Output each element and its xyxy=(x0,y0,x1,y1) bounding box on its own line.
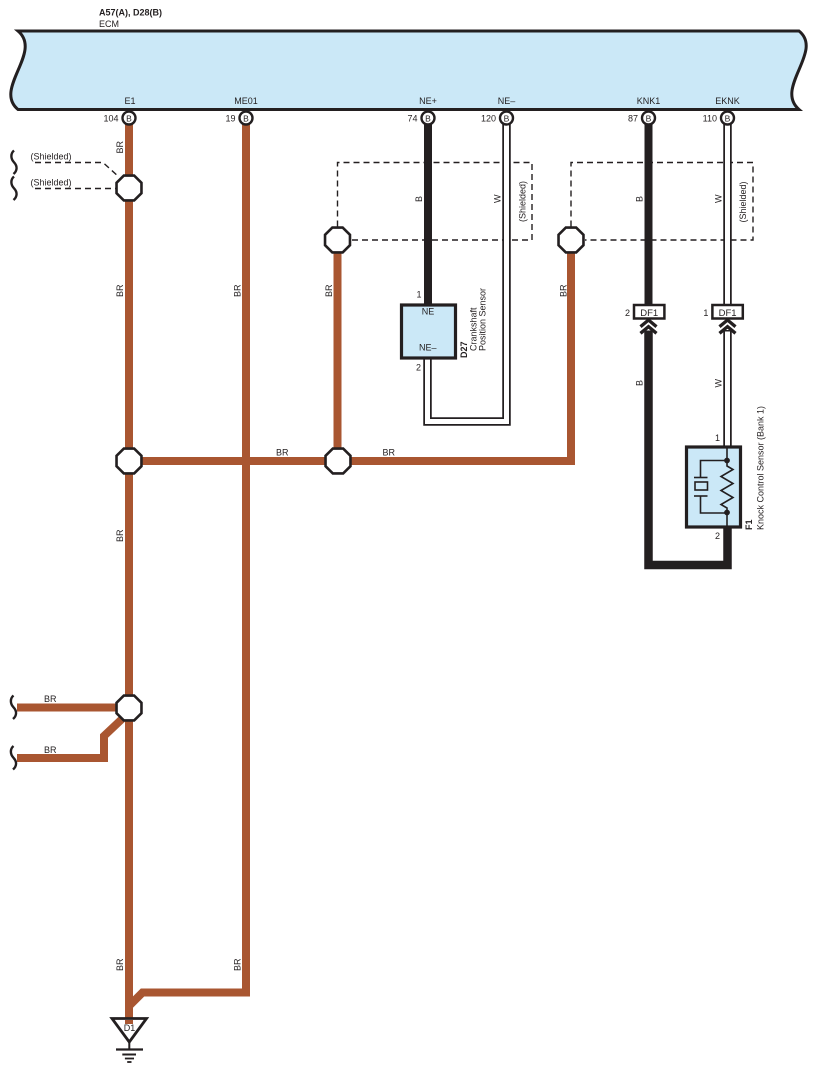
pin 19 circle B (ME01) xyxy=(225,112,252,125)
svg-text:BR: BR xyxy=(115,284,125,297)
svg-text:D27: D27 xyxy=(459,341,469,358)
break squiggle stub A xyxy=(11,696,16,720)
svg-text:DF1: DF1 xyxy=(719,308,737,319)
brace squiggle lower left xyxy=(11,177,16,201)
splice octagon on bus at NE branch xyxy=(326,449,351,474)
ground symbol D1 triangle xyxy=(112,1019,147,1043)
svg-text:EKNK: EKNK xyxy=(715,96,740,106)
pin 104 circle B (E1) xyxy=(103,112,135,125)
wire B from ECM pin KNK1 down to shield connector DF1 xyxy=(645,121,653,307)
F1 internal resistor xyxy=(721,461,733,513)
wire B from ECM pin NE+ down to D27 sensor xyxy=(424,121,432,308)
wire W from below DF1 chevrons down to knock sensor F1 pin 1 (hollow white wire) xyxy=(723,330,732,450)
svg-text:1: 1 xyxy=(416,290,421,300)
F1 internal top junction dot xyxy=(724,458,730,464)
svg-text:BR: BR xyxy=(383,448,396,458)
svg-text:ME01: ME01 xyxy=(234,96,258,106)
svg-text:1: 1 xyxy=(703,308,708,318)
svg-text:E1: E1 xyxy=(124,96,135,106)
svg-text:2: 2 xyxy=(625,308,630,318)
svg-text:B: B xyxy=(725,113,731,123)
svg-text:D1: D1 xyxy=(124,1023,136,1033)
ground bar 2 xyxy=(122,1054,136,1056)
knock control sensor F1 box xyxy=(687,447,741,527)
F1 internal lead to pin 2 xyxy=(726,513,728,528)
svg-text:BR: BR xyxy=(233,958,243,971)
shield annotation dashed leader (Shielded) lower xyxy=(35,188,116,190)
svg-text:74: 74 xyxy=(407,114,417,124)
wire BR branch from NE shield octagon down to bus splice xyxy=(334,243,342,461)
shield chevrons below DF1 (EKNK) xyxy=(720,320,736,333)
svg-text:BR: BR xyxy=(233,284,243,297)
svg-text:KNK1: KNK1 xyxy=(637,96,661,106)
shield annotation dashed leader (Shielded) upper xyxy=(35,163,119,178)
splice octagon on E1 wire with stubs xyxy=(117,696,142,721)
wire BR bus from KNK shield octagon down and left to E1 splice xyxy=(129,243,571,461)
svg-text:W: W xyxy=(714,194,724,203)
splice octagon on E1 wire (shield tie) xyxy=(117,176,142,201)
svg-text:BR: BR xyxy=(115,958,125,971)
shield connector DF1 (EKNK side) xyxy=(712,305,742,319)
pin 87 circle B (KNK1) xyxy=(628,112,655,125)
svg-text:(Shielded): (Shielded) xyxy=(31,178,72,188)
svg-text:A57(A), D28(B): A57(A), D28(B) xyxy=(99,8,162,18)
pin 120 circle B (NE-) xyxy=(481,112,513,125)
svg-text:F1: F1 xyxy=(744,519,754,530)
wire B from below DF1 chevrons down, right, up to knock sensor F1 pin 2 xyxy=(649,331,728,566)
ground bar 1 xyxy=(116,1048,143,1050)
svg-text:NE–: NE– xyxy=(498,96,516,106)
svg-text:2: 2 xyxy=(416,363,421,373)
ground stem xyxy=(128,1042,130,1050)
svg-text:DF1: DF1 xyxy=(640,308,658,319)
svg-text:(Shielded): (Shielded) xyxy=(738,181,748,222)
pin 110 circle B (EKNK) xyxy=(703,112,734,125)
ground bar 3 xyxy=(125,1058,134,1060)
svg-text:Position Sensor: Position Sensor xyxy=(478,288,488,351)
svg-text:ECM: ECM xyxy=(99,19,119,29)
splice octagon at NE shield box corner xyxy=(325,228,350,253)
svg-text:BR: BR xyxy=(559,284,569,297)
splice octagon at KNK shield box corner xyxy=(559,228,584,253)
svg-text:NE+: NE+ xyxy=(419,96,437,106)
F1 internal piezo element branch xyxy=(694,461,727,514)
svg-text:120: 120 xyxy=(481,114,496,124)
svg-text:87: 87 xyxy=(628,114,638,124)
svg-text:BR: BR xyxy=(324,284,334,297)
wire BR from ECM pin E1 down to ground D1 xyxy=(125,121,133,1019)
shield chevrons below DF1 (KNK1) xyxy=(641,320,657,333)
svg-text:B: B xyxy=(425,113,431,123)
shield dashed box around KNK1/EKNK wires xyxy=(571,163,753,241)
wire W from ECM pin EKNK down to shield connector DF1 (hollow white wire) xyxy=(723,121,732,307)
svg-text:B: B xyxy=(414,196,424,202)
crankshaft position sensor D27 box xyxy=(402,305,456,358)
svg-text:19: 19 xyxy=(225,114,235,124)
F1 internal lead from pin 1 xyxy=(726,447,728,460)
wire W from ECM pin NE- down, left, up into D27 pin 2 (hollow white wire) xyxy=(428,121,507,422)
svg-text:110: 110 xyxy=(703,114,717,124)
svg-text:(Shielded): (Shielded) xyxy=(31,152,72,162)
svg-text:2: 2 xyxy=(715,531,720,541)
svg-text:1: 1 xyxy=(715,433,720,443)
wire BR from ECM pin ME01 down, left, diagonal to E1 ground wire xyxy=(128,121,246,1007)
svg-text:NE–: NE– xyxy=(419,343,437,353)
shield dashed box around NE+/NE- wires xyxy=(338,163,533,241)
svg-text:BR: BR xyxy=(276,448,289,458)
splice octagon on E1 wire at bus junction xyxy=(117,449,142,474)
pin 74 circle B (NE+) xyxy=(407,112,434,125)
svg-text:BR: BR xyxy=(115,140,125,153)
svg-text:B: B xyxy=(504,113,510,123)
wire BR stub B into splice (from lower left, with break squiggle) xyxy=(17,719,122,758)
svg-text:BR: BR xyxy=(44,745,57,755)
svg-text:B: B xyxy=(646,113,652,123)
svg-text:B: B xyxy=(126,113,132,123)
svg-text:W: W xyxy=(714,379,724,388)
ECM block A57(A), D28(B) xyxy=(11,31,806,110)
svg-text:BR: BR xyxy=(44,694,57,704)
svg-text:B: B xyxy=(635,196,645,202)
svg-text:Knock Control Sensor (Bank 1): Knock Control Sensor (Bank 1) xyxy=(756,406,766,530)
svg-text:B: B xyxy=(243,113,249,123)
shield connector DF1 (KNK1 side) xyxy=(634,305,664,319)
svg-text:NE: NE xyxy=(422,307,435,317)
svg-text:104: 104 xyxy=(103,114,118,124)
svg-text:W: W xyxy=(493,194,503,203)
wire BR stub A into splice (from left, with break squiggle) xyxy=(17,704,118,712)
svg-text:BR: BR xyxy=(115,529,125,542)
brace squiggle upper left xyxy=(11,151,16,175)
svg-text:B: B xyxy=(635,380,645,386)
ground wire stub inside triangle xyxy=(125,1020,133,1024)
break squiggle stub B xyxy=(11,746,16,770)
F1 internal bottom junction dot xyxy=(724,510,730,516)
ground bar 4 xyxy=(127,1061,131,1063)
svg-text:(Shielded): (Shielded) xyxy=(518,181,528,222)
